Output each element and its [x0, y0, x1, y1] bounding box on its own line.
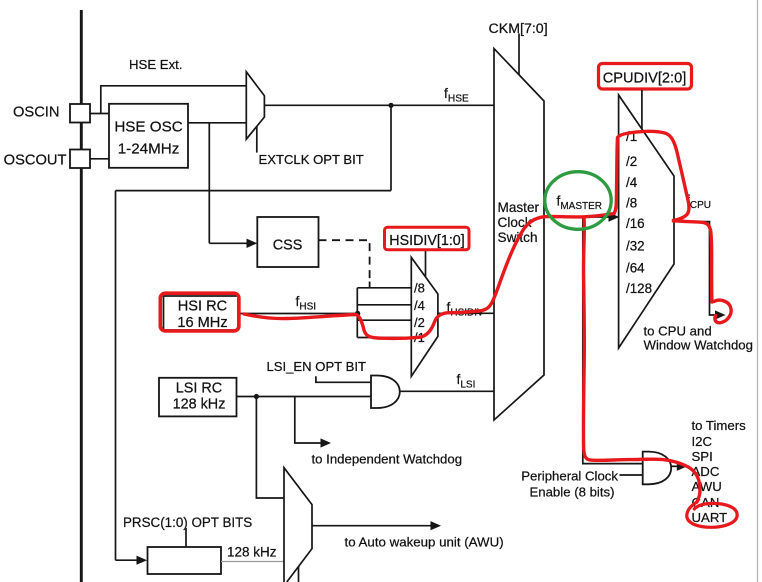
wire HSE OSC output to mux: [188, 122, 246, 124]
svg-text:/8: /8: [626, 195, 637, 210]
svg-text:OSCOUT: OSCOUT: [4, 153, 67, 169]
wire peripheral enable input: [620, 474, 643, 476]
annotation red circle UART: [687, 502, 737, 527]
annotation red arrow hook f_CPU: [714, 300, 731, 323]
annotation red trace HSI to master: [244, 214, 614, 339]
wire divider input bus: [356, 288, 358, 338]
svg-text:/2: /2: [414, 315, 425, 330]
wire f_CPU: [674, 222, 717, 315]
svg-text:to Timers: to Timers: [692, 418, 747, 433]
wire CPUDIV select: [641, 90, 643, 129]
annotation red box HSI RC: [160, 293, 239, 331]
wire feedback horizontal: [116, 190, 392, 192]
wire LSI to AWU mux: [256, 397, 284, 499]
block LSI RC: [159, 378, 237, 417]
block HSI RC (red highlighted): [164, 296, 239, 331]
wire /8 input: [357, 287, 411, 289]
label peripheral destinations: [692, 418, 747, 525]
label CPUDIV[2:0] (red box): [599, 64, 692, 90]
wire LSI_EN select: [316, 376, 371, 382]
svg-text:HSE OSC: HSE OSC: [114, 118, 182, 135]
wire OSCIN to HSE OSC: [90, 113, 109, 115]
svg-text:/16: /16: [626, 216, 645, 231]
wire OSCOUT to HSE OSC: [90, 158, 109, 160]
wire CSS dashed link: [319, 240, 370, 279]
svg-text:HSIDIV[1:0]: HSIDIV[1:0]: [389, 233, 465, 249]
svg-text:PRSC(1:0) OPT BITS: PRSC(1:0) OPT BITS: [123, 515, 252, 530]
svg-text:LSI RC: LSI RC: [176, 381, 222, 397]
wire peripheral branch: [583, 217, 643, 464]
svg-text:Master: Master: [498, 200, 540, 215]
right page border: [757, 0, 759, 582]
annotation red box HSIDIV: [385, 227, 470, 250]
wire f_HSIDIV: [438, 312, 494, 314]
svg-text:EXTCLK OPT BIT: EXTCLK OPT BIT: [259, 152, 364, 167]
svg-text:/4: /4: [414, 298, 425, 313]
svg-text:/32: /32: [626, 238, 645, 253]
svg-text:UART: UART: [692, 510, 728, 525]
annotation red trace peripheral branch: [583, 218, 699, 502]
svg-text:128 kHz: 128 kHz: [173, 396, 226, 412]
and-gate LSI enable: [371, 376, 400, 409]
svg-text:CKM[7:0]: CKM[7:0]: [489, 21, 548, 37]
node f_HSE junction: [388, 103, 393, 108]
svg-text:Window Watchdog: Window Watchdog: [644, 338, 753, 353]
svg-text:/4: /4: [626, 175, 638, 190]
wire prescaler input: [116, 559, 139, 561]
wire f_LSI: [400, 390, 494, 392]
svg-text:HSI RC: HSI RC: [178, 299, 227, 315]
mux HSIDIV divider: [411, 257, 438, 376]
wire AWU mux select stub: [298, 567, 300, 582]
svg-text:1-24MHz: 1-24MHz: [118, 140, 180, 157]
wire LSI output: [237, 396, 372, 398]
svg-text:I2C: I2C: [692, 434, 713, 449]
wire f_MASTER: [544, 216, 610, 218]
wire /1 input: [357, 337, 411, 339]
wire f_HSE: [264, 104, 494, 106]
wire long left vertical: [115, 191, 117, 561]
svg-text:/8: /8: [414, 281, 425, 296]
wire /2 input: [357, 319, 411, 321]
mux Master Clock Switch: [494, 49, 544, 420]
svg-text:/128: /128: [626, 281, 652, 296]
block AWU prescaler: [148, 547, 222, 574]
wire /4 input: [357, 304, 411, 306]
mux EXTCLK: [246, 72, 264, 139]
wire HSE Ext. bypass riser: [100, 86, 102, 114]
wire HSIDIV select: [425, 250, 427, 277]
annotation red trace CPU branch: [614, 131, 712, 302]
wire to AWU: [312, 525, 432, 527]
svg-text:Peripheral Clock: Peripheral Clock: [521, 468, 618, 483]
svg-text:AWU: AWU: [692, 479, 722, 494]
annotation green circle f_MASTER: [545, 172, 611, 230]
svg-text:HSE Ext.: HSE Ext.: [129, 57, 183, 72]
svg-text:/2: /2: [626, 154, 637, 169]
svg-text:128 kHz: 128 kHz: [227, 545, 277, 560]
svg-text:CPUDIV[2:0]: CPUDIV[2:0]: [603, 71, 687, 87]
svg-text:to Auto wakeup unit (AWU): to Auto wakeup unit (AWU): [345, 535, 504, 550]
wire f_HSE feedback riser: [390, 105, 392, 190]
svg-text:16 MHz: 16 MHz: [177, 315, 227, 331]
wire to CSS with arrow: [209, 242, 247, 244]
wire watchdog branch: [295, 397, 322, 444]
wire HSE Ext. to mux: [100, 85, 246, 87]
and-gate peripheral clock: [643, 452, 672, 485]
svg-text:to CPU and: to CPU and: [644, 323, 712, 338]
svg-text:to Independent Watchdog: to Independent Watchdog: [312, 452, 463, 467]
wire CKM select: [518, 34, 520, 76]
node LSI junction: [254, 394, 259, 399]
chip boundary line: [80, 10, 83, 582]
svg-text:/64: /64: [626, 260, 645, 275]
svg-text:CSS: CSS: [273, 238, 303, 254]
wire EXTCLK select: [256, 126, 258, 152]
block HSE OSC: [109, 104, 188, 168]
block CSS: [257, 217, 318, 267]
mux CPU divider: [619, 95, 674, 348]
node f_HSI junction: [355, 311, 360, 316]
svg-text:LSI_EN OPT BIT: LSI_EN OPT BIT: [267, 359, 366, 374]
mux AWU: [284, 468, 312, 582]
wire 128kHz to AWU mux: [221, 561, 284, 563]
svg-text:OSCIN: OSCIN: [13, 105, 60, 121]
pin OSCIN: [13, 104, 90, 123]
svg-text:SPI: SPI: [692, 449, 713, 464]
wire PRSC select: [185, 528, 187, 547]
wire f_HSI: [237, 313, 357, 315]
svg-text:Enable (8 bits): Enable (8 bits): [529, 484, 614, 499]
pin OSCOUT: [4, 150, 90, 169]
wire to CSS riser: [208, 123, 210, 244]
